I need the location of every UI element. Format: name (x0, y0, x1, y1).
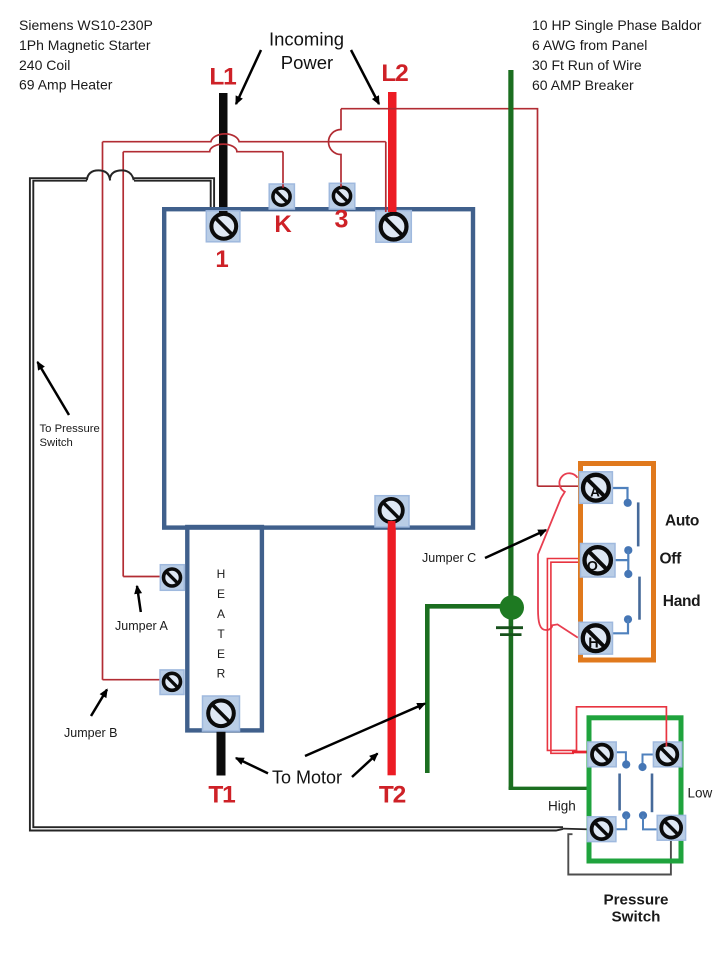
cable single lead into pressure switch bottom-left terminal (563, 828, 590, 831)
heater box (187, 527, 262, 730)
pressure switch contact dot bottom-left (622, 811, 630, 819)
svg-text:Jumper B: Jumper B (64, 726, 118, 740)
arrow To Motor to T1 (236, 758, 268, 773)
pressure switch contact dot bottom-right (639, 811, 647, 819)
contact dot 2 (624, 546, 632, 554)
selector switch box (orange) (581, 464, 654, 661)
terminal Off (581, 544, 616, 578)
note: Siemens starter header text (19, 17, 153, 93)
starter box (164, 209, 473, 527)
pressure switch contact elbow top-left (616, 752, 626, 761)
cable crossover arcs over red jumper wires (87, 170, 134, 180)
svg-text:A: A (217, 607, 225, 621)
svg-text:R: R (217, 667, 226, 681)
wire line1 horizontal into Jumper B terminal (103, 679, 162, 681)
svg-text:To Motor: To Motor (272, 768, 342, 788)
svg-text:Power: Power (281, 52, 333, 73)
svg-text:3: 3 (335, 206, 349, 234)
arrow To Motor to T2 (352, 754, 378, 778)
wire line2 left vertical down to Jumper A (122, 152, 124, 577)
wire line2 vertical drop to K terminal (282, 152, 284, 185)
wire stub into 3 terminal (340, 184, 342, 188)
pressure switch contact elbow bottom-left (616, 815, 626, 829)
note: motor feed header text (532, 17, 702, 93)
cable double-line to pressure switch: inner line (33, 181, 563, 828)
svg-text:L2: L2 (381, 60, 408, 87)
svg-text:High: High (548, 799, 576, 814)
wire T2 stub inside terminal T2 (388, 521, 396, 531)
svg-text:Pressure: Pressure (603, 892, 668, 909)
wire L2 incoming (red) (388, 92, 397, 216)
svg-text:240 Coil: 240 Coil (19, 57, 70, 73)
terminal Jumper B (160, 670, 184, 695)
label Pressure Switch (603, 892, 668, 926)
wire L2 stub inside terminal L2 (388, 207, 397, 212)
terminal Hand (579, 622, 613, 654)
wire stub into K terminal (282, 184, 284, 188)
svg-text:T2: T2 (379, 782, 406, 809)
contact dot 1 (624, 499, 632, 507)
wire red jumper line2 K-to-JumperA: horizontal with hump over L1 (123, 144, 283, 152)
svg-text:A: A (590, 485, 600, 500)
cable double-line to pressure switch: outer line (30, 178, 563, 830)
wire green below junction to pressure switch (509, 615, 514, 790)
pressure switch blade right (651, 774, 654, 813)
svg-text:Low: Low (688, 786, 713, 801)
wire line1 stub inside terminal L2 (385, 207, 387, 212)
svg-text:To Pressure: To Pressure (40, 423, 100, 435)
svg-text:E: E (217, 647, 225, 661)
svg-text:1: 1 (215, 246, 228, 273)
wire line1 left vertical down to Jumper B (102, 142, 104, 680)
wire line2 horizontal into Jumper A terminal (123, 576, 161, 578)
svg-text:Jumper C: Jumper C (422, 551, 476, 565)
arrow Jumper A to terminal (137, 586, 141, 612)
node green junction dot (500, 595, 524, 619)
pressure switch contact dot top-left (622, 760, 630, 768)
terminal pressure switch top-right (653, 742, 681, 767)
svg-text:1Ph Magnetic Starter: 1Ph Magnetic Starter (19, 37, 151, 53)
svg-text:E: E (217, 587, 225, 601)
arrow Jumper B to wire corner (91, 690, 107, 717)
terminal 3 (329, 183, 355, 209)
arrow To Pressure Switch to cable (38, 362, 70, 415)
terminal L2 (376, 211, 411, 243)
terminal T1 (203, 696, 240, 731)
terminal Auto (579, 472, 612, 504)
pressure switch contact elbow bottom-right (643, 815, 657, 829)
wire gray hook to pressure switch bottom-right terminal (568, 834, 671, 874)
terminal pressure switch top-left (588, 742, 616, 767)
terminal T2 (375, 496, 409, 527)
svg-text:T1: T1 (208, 782, 235, 809)
arrow from Incoming Power to L1 (236, 50, 261, 104)
svg-text:Switch: Switch (40, 437, 73, 449)
svg-text:H: H (217, 567, 226, 581)
wire jumper C (pink) Auto loop to H terminal (538, 473, 578, 637)
svg-text:Hand: Hand (663, 593, 701, 610)
contact dot 4 (624, 615, 632, 623)
arrow To Motor to green motor wire (305, 704, 425, 757)
wire red jumper line3 terminal3-to-Auto horizontal top (341, 109, 538, 487)
svg-text:L1: L1 (209, 64, 236, 91)
contact blade Hand (638, 577, 641, 620)
svg-text:Off: Off (660, 551, 683, 568)
wire red jumper line1 L2-to-JumperB: horizontal with hump over L1 (103, 134, 386, 142)
svg-text:Jumper A: Jumper A (115, 619, 168, 633)
label To Pressure Switch (40, 423, 100, 449)
pressure switch box (green) (589, 718, 681, 861)
contact elbow from Auto terminal (613, 488, 628, 499)
svg-text:T: T (217, 627, 225, 641)
terminal pressure switch bottom-left (588, 817, 616, 842)
svg-text:O: O (587, 558, 598, 574)
arrow from Incoming Power to L2 (351, 50, 379, 104)
wire line1 vertical drop to L2 terminal (385, 142, 387, 208)
svg-text:Switch: Switch (612, 909, 661, 926)
wire T2 to motor (red) (388, 527, 396, 775)
svg-text:30 Ft Run of Wire: 30 Ft Run of Wire (532, 57, 642, 73)
wire red branch to pressure switch top-right terminal (577, 707, 667, 751)
pressure switch contact elbow top-right (643, 755, 654, 764)
wire O-pair double red: lower line (551, 562, 580, 753)
wire O-pair double red: upper line (547, 559, 580, 751)
wire O-pair merged segment into pressure switch top-left terminal (572, 751, 589, 754)
wire red lead tip into top-right terminal (665, 742, 667, 747)
terminal 1 (206, 211, 240, 242)
capacitor tick marks on green wire (496, 626, 523, 629)
wire L1 incoming (black) (219, 93, 228, 215)
pressure switch blade left (618, 774, 621, 811)
svg-text:Auto: Auto (665, 513, 699, 530)
svg-text:H: H (588, 636, 598, 652)
wire T1 to motor (black) (217, 730, 226, 776)
contact blade Auto (637, 502, 640, 546)
label HEATER vertical (217, 567, 226, 681)
svg-text:69 Amp Heater: 69 Amp Heater (19, 77, 113, 93)
pressure switch contact dot top-right (638, 763, 646, 771)
wire line3 horizontal into Auto terminal (538, 485, 579, 487)
terminal K (269, 184, 294, 209)
contact elbow to Hand terminal (613, 619, 629, 633)
wire line3 vertical into terminal 3 with C-hump over line1 (329, 109, 342, 184)
contact center link with O elbow (615, 550, 629, 574)
wire green to motor: horizontal from junction then down beside T2 (427, 606, 511, 773)
label Incoming Power (269, 29, 344, 74)
svg-text:10 HP Single Phase Baldor: 10 HP Single Phase Baldor (532, 17, 702, 33)
svg-text:Siemens WS10-230P: Siemens WS10-230P (19, 17, 153, 33)
terminal Jumper A (160, 565, 184, 591)
wire green main vertical from panel (508, 70, 513, 598)
svg-text:6 AWG from Panel: 6 AWG from Panel (532, 37, 647, 53)
wire L1 stub inside terminal 1 (219, 211, 228, 215)
svg-text:60 AMP Breaker: 60 AMP Breaker (532, 77, 634, 93)
svg-text:Incoming: Incoming (269, 29, 344, 50)
terminal pressure switch bottom-right (657, 815, 685, 840)
contact dot 3 (624, 570, 632, 578)
svg-text:K: K (274, 211, 292, 238)
wire green horizontal into pressure switch box (509, 787, 589, 790)
arrow Jumper C to pink wire (485, 530, 546, 558)
